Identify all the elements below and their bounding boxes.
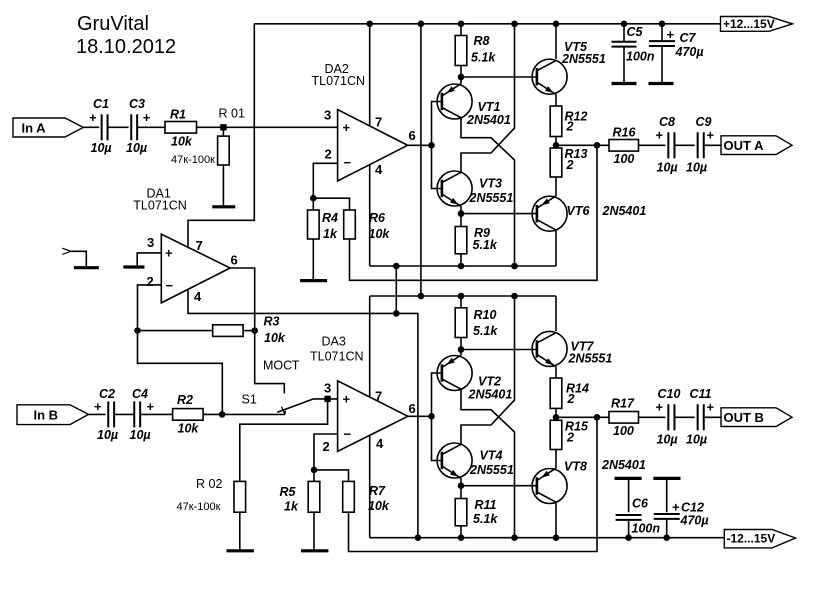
svg-text:2: 2 xyxy=(567,392,575,406)
op-amp DA3 TL071CN xyxy=(338,381,408,452)
node output B xyxy=(555,408,557,420)
wire R2 to In B node xyxy=(203,413,222,415)
node VT1 collector on -V line xyxy=(511,263,518,270)
svg-text:+: + xyxy=(165,246,173,261)
svg-text:−: − xyxy=(166,278,174,293)
node rail C5 xyxy=(621,21,628,28)
connector OUT A xyxy=(721,136,792,155)
node R10 / VT2 emitter / VT7 base xyxy=(458,346,465,353)
wire R17 to C10 xyxy=(639,416,666,418)
svg-text:47к-100к: 47к-100к xyxy=(171,154,215,166)
wire DA3 pin 7 to channel B +V rail xyxy=(369,296,371,397)
wire VT3 collector to +V rail (cross) xyxy=(461,24,515,173)
svg-text:4: 4 xyxy=(375,162,383,177)
svg-text:VT8: VT8 xyxy=(564,460,587,474)
svg-text:+: + xyxy=(672,500,680,515)
channel A -V line xyxy=(370,265,556,267)
svg-text:2N5401: 2N5401 xyxy=(468,388,513,402)
svg-text:R7: R7 xyxy=(369,484,386,498)
node rail R8 xyxy=(458,21,465,28)
wire DA3 output to VT2 base xyxy=(432,373,442,416)
node DA3 output xyxy=(428,413,435,420)
node In B / R2 output xyxy=(219,411,226,418)
transistor VT8 2N5401 xyxy=(532,469,567,504)
node R 01 xyxy=(220,124,226,130)
transistor VT6 2N5401 xyxy=(532,196,567,231)
svg-text:10µ: 10µ xyxy=(97,428,118,442)
capacitor C11 10u xyxy=(697,404,699,430)
svg-text:10µ: 10µ xyxy=(686,161,707,175)
svg-text:R2: R2 xyxy=(177,393,193,407)
svg-text:3: 3 xyxy=(324,381,331,396)
svg-text:−: − xyxy=(344,155,352,170)
wire VT4 collector to +V rail (cross) xyxy=(461,296,515,444)
capacitor C10 10u xyxy=(667,404,669,430)
svg-text:10µ: 10µ xyxy=(686,433,707,447)
ground of input jack xyxy=(74,266,99,269)
node R9 on -V line xyxy=(458,263,465,270)
svg-text:10µ: 10µ xyxy=(126,141,147,155)
ground of C6 xyxy=(615,477,642,480)
op-amp DA2 TL071CN xyxy=(338,110,408,182)
svg-text:R1: R1 xyxy=(170,108,186,122)
wire In B to C2 xyxy=(89,413,106,415)
svg-text:2N5551: 2N5551 xyxy=(561,52,606,66)
capacitor C1 10u xyxy=(101,114,103,140)
wire VT8 collector to -V rail xyxy=(555,502,557,538)
svg-text:VT2: VT2 xyxy=(478,375,501,389)
node rail VT3 collector xyxy=(511,21,518,28)
ground of R5 xyxy=(301,549,328,552)
node -V feed on DA1 pin4 line xyxy=(393,310,400,317)
svg-text:4: 4 xyxy=(376,436,384,451)
svg-text:2N5551: 2N5551 xyxy=(469,463,514,477)
svg-text:C11: C11 xyxy=(690,387,712,401)
ground of R 02 xyxy=(227,549,254,552)
wire C2 to C4 xyxy=(114,413,134,415)
svg-text:C6: C6 xyxy=(632,497,649,511)
resistor R8 5.1k xyxy=(460,24,462,36)
wire DA1 pin2 node to In B node (MOST) xyxy=(138,331,223,415)
svg-text:10k: 10k xyxy=(369,227,391,241)
wire DA3 pin3 node to R 02 xyxy=(240,399,328,482)
input jack symbol xyxy=(62,248,71,254)
resistor R1 10k xyxy=(165,122,197,134)
svg-text:+: + xyxy=(94,399,102,414)
svg-text:10k: 10k xyxy=(368,499,390,513)
capacitor C2 10u xyxy=(107,401,109,427)
svg-text:10µ: 10µ xyxy=(657,433,678,447)
node rail C12 xyxy=(663,534,670,541)
wire C10 to C11 xyxy=(674,416,694,418)
capacitor C3 10u xyxy=(130,114,132,140)
svg-text:2: 2 xyxy=(566,431,574,445)
resistor R10 5.1k xyxy=(460,296,462,308)
svg-text:5.1k: 5.1k xyxy=(471,51,496,65)
-V rail -12...15V xyxy=(370,537,725,539)
resistor R15 2 xyxy=(550,420,562,449)
node rail DA2 pin7 xyxy=(366,21,373,28)
transistor VT7 2N5551 xyxy=(532,331,567,366)
resistor R9 5.1k xyxy=(460,214,462,227)
svg-text:10k: 10k xyxy=(264,331,286,345)
svg-text:47к-100к: 47к-100к xyxy=(177,501,221,513)
resistor R7 10k feedback xyxy=(314,470,349,482)
svg-text:OUT A: OUT A xyxy=(724,138,765,153)
svg-text:C1: C1 xyxy=(93,97,109,111)
wire DA3 pin 4 to -V rail xyxy=(369,436,371,538)
capacitor C5 100n xyxy=(623,24,625,41)
svg-text:100n: 100n xyxy=(626,50,655,64)
svg-text:R16: R16 xyxy=(613,126,637,140)
wire DA1 pin 6 output to switch S1 xyxy=(230,268,284,393)
svg-text:5.1k: 5.1k xyxy=(473,512,498,526)
wire node to VT8 base xyxy=(461,485,537,487)
svg-text:C5: C5 xyxy=(627,25,644,39)
wire output A node to R16 xyxy=(556,144,609,146)
ground of C12 xyxy=(653,477,680,480)
svg-text:R8: R8 xyxy=(474,34,490,48)
transistor VT3 2N5551 xyxy=(437,171,472,206)
wire node R01 to DA2 pin 3 xyxy=(223,126,337,128)
svg-text:2N5401: 2N5401 xyxy=(602,204,647,218)
svg-text:R 01: R 01 xyxy=(219,107,245,121)
node rail VT5 collector xyxy=(553,21,560,28)
capacitor C8 10u xyxy=(667,132,669,158)
wire DA2 pin 4 to channel A -V line xyxy=(369,165,371,266)
node DA2 inverting input xyxy=(310,195,317,202)
svg-text:C12: C12 xyxy=(681,501,704,515)
resistor R14 2 xyxy=(550,378,562,408)
svg-text:2N5401: 2N5401 xyxy=(466,113,511,127)
wire DA3 pin 2 xyxy=(314,434,338,470)
wire C4 to R2 xyxy=(140,413,172,415)
wire DA2 output to VT1 base xyxy=(432,102,442,146)
svg-text:2: 2 xyxy=(323,439,330,454)
node rail +V feed xyxy=(418,21,425,28)
svg-text:18.10.2012: 18.10.2012 xyxy=(76,36,176,58)
ground of R4 xyxy=(300,279,327,282)
svg-text:3: 3 xyxy=(324,108,331,123)
svg-text:6: 6 xyxy=(409,128,416,143)
svg-text:GruVital: GruVital xyxy=(77,13,149,35)
resistor R4 1k xyxy=(312,198,314,210)
svg-text:C4: C4 xyxy=(132,387,148,401)
capacitor C12 470u xyxy=(666,480,668,512)
svg-text:+: + xyxy=(143,110,151,125)
ground of C5 xyxy=(612,82,637,85)
transistor VT5 2N5551 xyxy=(532,59,567,94)
node feedback A riser xyxy=(594,142,601,149)
svg-text:470µ: 470µ xyxy=(680,514,709,528)
resistor R16 100 xyxy=(609,140,639,152)
svg-text:R11: R11 xyxy=(475,498,497,512)
svg-text:100: 100 xyxy=(614,152,635,166)
svg-text:2N5401: 2N5401 xyxy=(601,458,646,472)
svg-text:2: 2 xyxy=(566,158,574,172)
svg-text:2: 2 xyxy=(147,274,154,289)
resistor R3 10k xyxy=(138,330,213,332)
node B rail VT4 collector xyxy=(511,293,518,300)
node DA3 pin 3 xyxy=(324,396,330,402)
wire R7 to output node (feedback B) xyxy=(349,417,598,551)
ground of C7 xyxy=(649,82,674,85)
wire DA1 pin 4 to -V xyxy=(188,290,418,538)
node rail VT8 collector xyxy=(553,534,560,541)
capacitor C4 10u xyxy=(133,401,135,427)
resistor R5 1k xyxy=(313,470,315,482)
svg-text:7: 7 xyxy=(375,389,382,404)
wire C3 to R1 xyxy=(137,126,165,128)
svg-text:In A: In A xyxy=(22,120,47,135)
svg-text:C8: C8 xyxy=(659,115,675,129)
wire DA2 output to VT3 base xyxy=(432,145,442,188)
wire +V feed to channel B rail xyxy=(420,24,422,296)
svg-text:C2: C2 xyxy=(99,387,115,401)
svg-text:-12...15V: -12...15V xyxy=(727,531,776,545)
connector OUT B xyxy=(721,408,792,427)
wire node to VT6 base xyxy=(461,213,537,215)
svg-text:4: 4 xyxy=(194,289,202,304)
svg-text:6: 6 xyxy=(231,253,238,268)
resistor R12 2 xyxy=(550,106,562,137)
wire In A to C1 xyxy=(83,126,99,128)
wire DA1 pin 7 to +V rail xyxy=(188,24,254,248)
wire DA2 pin 6 output xyxy=(408,144,432,146)
svg-text:VT1: VT1 xyxy=(478,100,501,114)
node DA3 inverting input xyxy=(311,467,318,474)
capacitor C9 10u xyxy=(697,132,699,158)
svg-text:TL071CN: TL071CN xyxy=(310,350,364,364)
wire node to VT7 base xyxy=(461,349,537,351)
wire R1 to node R01 xyxy=(197,126,224,128)
svg-text:OUT B: OUT B xyxy=(724,410,764,425)
svg-text:7: 7 xyxy=(196,238,203,253)
svg-text:R 02: R 02 xyxy=(196,477,222,491)
resistor R 02 47k-100k xyxy=(234,481,246,512)
svg-text:100: 100 xyxy=(613,424,634,438)
svg-text:1k: 1k xyxy=(284,500,299,514)
wire S1 to DA3 pin 3 xyxy=(314,398,338,400)
svg-text:10k: 10k xyxy=(178,422,200,436)
svg-text:6: 6 xyxy=(409,401,416,416)
node VT3 emitter / R9 / VT6 base xyxy=(460,206,462,213)
node DA1 output / R3 xyxy=(251,327,258,334)
wire DA3 output to VT4 base xyxy=(432,416,442,460)
svg-text:1k: 1k xyxy=(323,227,338,241)
svg-text:+: + xyxy=(656,400,664,415)
svg-text:+: + xyxy=(656,128,664,143)
wire In B node to switch S1 common xyxy=(222,413,285,415)
svg-text:2: 2 xyxy=(325,147,332,162)
resistor R11 5.1k xyxy=(460,486,462,499)
svg-text:100n: 100n xyxy=(632,522,661,536)
wire C8 to C9 xyxy=(674,144,694,146)
svg-text:+: + xyxy=(667,27,675,42)
resistor R2 10k xyxy=(173,409,204,421)
svg-text:TL071CN: TL071CN xyxy=(312,74,366,88)
wire VT1 collector to -V (cross) xyxy=(461,118,515,266)
svg-text:R17: R17 xyxy=(611,397,635,411)
resistor R6 10k feedback xyxy=(313,198,349,210)
resistor R17 100 xyxy=(609,412,639,424)
node rail C6 xyxy=(625,534,632,541)
wire C9 to OUT A xyxy=(704,144,721,146)
capacitor C6 100n xyxy=(628,480,630,512)
svg-text:+: + xyxy=(707,128,715,143)
svg-text:R6: R6 xyxy=(369,211,386,225)
svg-text:−: − xyxy=(344,427,352,442)
svg-text:2N5551: 2N5551 xyxy=(568,352,613,366)
svg-text:5.1k: 5.1k xyxy=(473,238,498,252)
transistor VT1 2N5401 xyxy=(437,84,472,119)
svg-text:C9: C9 xyxy=(696,115,712,129)
wire node to VT5 base xyxy=(461,76,537,78)
resistor R 01 47k-100k xyxy=(222,127,224,136)
svg-text:470µ: 470µ xyxy=(675,45,704,59)
connector +12...15V xyxy=(721,17,793,32)
svg-text:VT3: VT3 xyxy=(479,177,502,191)
svg-text:+: + xyxy=(343,392,351,407)
transistor VT4 2N5551 xyxy=(437,443,472,478)
wire node to channel A -V line xyxy=(395,266,397,313)
wire C1 to C3 xyxy=(108,126,129,128)
svg-text:S1: S1 xyxy=(242,393,257,407)
node DA1 inverting input xyxy=(134,327,141,334)
resistor R13 2 xyxy=(550,148,562,177)
wire VT2 collector to -V rail (cross) xyxy=(461,389,515,538)
node feedback B riser xyxy=(594,414,601,421)
wire DA3 pin 6 output xyxy=(408,415,432,417)
svg-text:+: + xyxy=(343,120,351,135)
svg-text:VT6: VT6 xyxy=(567,204,591,218)
wire DA1 pin 2 xyxy=(138,285,162,331)
svg-text:+: + xyxy=(707,400,715,415)
wire DA2 pin 2 xyxy=(313,163,337,198)
node rail -V feed xyxy=(415,534,422,541)
node rail VT2 collector xyxy=(511,534,518,541)
svg-text:In B: In B xyxy=(34,408,59,423)
transistor VT2 2N5401 xyxy=(437,356,472,391)
svg-text:C7: C7 xyxy=(680,31,697,45)
svg-text:R5: R5 xyxy=(280,485,297,499)
svg-text:5.1k: 5.1k xyxy=(473,324,498,338)
node rail R11 xyxy=(458,534,465,541)
switch S1 xyxy=(284,411,286,415)
svg-text:C10: C10 xyxy=(658,387,681,401)
svg-text:R3: R3 xyxy=(264,315,280,329)
node rail C7 xyxy=(659,21,666,28)
channel B +V rail xyxy=(370,295,556,297)
+V rail +12...15V xyxy=(254,23,720,25)
svg-text:TL071CN: TL071CN xyxy=(133,199,187,213)
connector -12...15V xyxy=(724,530,795,548)
wire DA2 pin 7 to +V rail xyxy=(369,24,371,126)
svg-text:+: + xyxy=(89,110,97,125)
svg-text:2N5551: 2N5551 xyxy=(469,191,514,205)
svg-text:10µ: 10µ xyxy=(91,141,112,155)
connector In B xyxy=(17,405,89,425)
op-amp DA1 TL071CN xyxy=(161,234,230,303)
svg-text:C3: C3 xyxy=(129,97,145,111)
svg-text:DA3: DA3 xyxy=(322,335,346,349)
wire R16 to C8 xyxy=(639,144,666,146)
capacitor C7 470u xyxy=(661,24,663,40)
svg-text:R4: R4 xyxy=(322,211,338,225)
svg-text:VT4: VT4 xyxy=(480,449,503,463)
node VT4 emitter / R11 / VT8 base xyxy=(460,478,462,485)
wire VT6 collector to -V line xyxy=(555,230,557,266)
node B rail +V feed xyxy=(418,293,425,300)
connector In A xyxy=(13,118,83,137)
svg-text:7: 7 xyxy=(375,115,382,130)
node R8 / VT1 emitter / VT5 base xyxy=(458,74,465,81)
svg-text:+12...15V: +12...15V xyxy=(723,17,775,31)
svg-text:R10: R10 xyxy=(474,308,497,322)
svg-text:10µ: 10µ xyxy=(130,428,151,442)
node B rail R10 xyxy=(458,293,465,300)
node DA2 output xyxy=(428,142,435,149)
svg-text:2: 2 xyxy=(566,120,574,134)
svg-text:+: + xyxy=(147,399,155,414)
wire output B node to R17 xyxy=(556,416,609,418)
ground of R 01 xyxy=(212,205,235,208)
wire C11 to OUT B xyxy=(704,416,721,418)
wire R6 to output node (feedback A) xyxy=(350,145,598,280)
svg-text:10k: 10k xyxy=(171,135,193,149)
node output A xyxy=(555,137,557,149)
svg-text:3: 3 xyxy=(147,235,154,250)
svg-text:10µ: 10µ xyxy=(657,161,678,175)
ground of DA1 pin 3 xyxy=(123,265,144,268)
svg-text:МОСТ: МОСТ xyxy=(263,359,300,373)
wire DA1 pin 3 to ground xyxy=(137,253,161,266)
